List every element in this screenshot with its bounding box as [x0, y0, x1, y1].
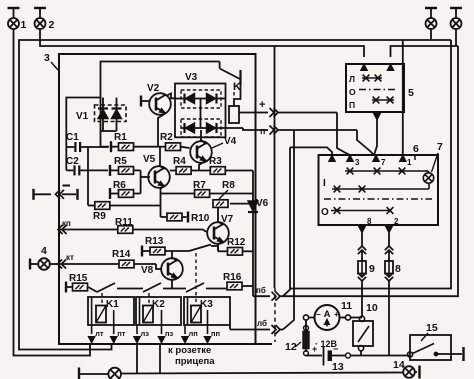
svg-text:1: 1 — [21, 19, 27, 31]
box6 terminal arrow 4 — [329, 155, 336, 162]
wire - connector line vertical — [274, 46, 276, 288]
terminal minus with capacitor lead — [63, 185, 71, 187]
mech link K2 dashed — [148, 293, 150, 306]
diode V3d — [207, 123, 217, 133]
svg-text:кп: кп — [62, 219, 71, 228]
wire - rail lamp2 to switch box 5 left input — [40, 29, 364, 57]
mech link K3 dashed — [195, 253, 197, 306]
svg-text:C2: C2 — [66, 156, 79, 167]
relay K2 box — [136, 297, 181, 325]
svg-text:пб: пб — [256, 286, 266, 295]
relay contact of K2 — [143, 283, 161, 292]
svg-text:R14: R14 — [112, 249, 131, 260]
wire - V7 emitter down — [218, 241, 224, 251]
terminal kt on box edge — [58, 260, 67, 269]
svg-text:V4: V4 — [224, 136, 237, 147]
wire - V3 center link — [200, 99, 202, 129]
svg-text:V8: V8 — [141, 265, 154, 276]
wire - right internal vertical — [252, 171, 254, 201]
box 6 switch block — [319, 155, 439, 225]
relay K3 coil — [191, 306, 201, 323]
diode bridge V3 outer box — [175, 84, 226, 138]
box6 bottom terminal 8 — [359, 227, 366, 234]
relay coil K — [229, 106, 239, 123]
relay contact K — [219, 62, 221, 69]
box 5 turn signal switch — [346, 64, 404, 112]
relay contact of K3 — [189, 245, 211, 252]
box6 terminal arrow 3 — [347, 155, 354, 162]
svg-text:K2: K2 — [152, 299, 165, 310]
box5 divider — [359, 89, 398, 91]
wire - common bottom line — [121, 373, 403, 374]
mechanical link dashes of K — [233, 92, 235, 104]
V3 lower dashed box — [181, 119, 221, 137]
wire - riser to box6 terminal 4 — [290, 147, 332, 155]
box5 left input arrow — [361, 64, 368, 71]
wire - node to R2 — [158, 146, 166, 148]
svg-text:V5: V5 — [143, 154, 156, 165]
wire - V8 emitter down — [172, 277, 178, 289]
svg-text:п: п — [260, 126, 265, 136]
diode V3b — [207, 94, 217, 104]
wire - V4 emitter down to R4/R3 node — [199, 160, 207, 171]
svg-text:1: 1 — [407, 158, 412, 167]
relay K1 pin wires — [91, 297, 93, 325]
svg-text:−: − — [316, 310, 321, 319]
fuse 8 — [385, 261, 393, 274]
box6 bottom terminal 2 — [386, 227, 393, 234]
svg-text:П: П — [349, 100, 355, 110]
wire - drop from bus to ground line right — [159, 344, 161, 373]
box3 bottom edge bus — [59, 343, 272, 345]
svg-text:9: 9 — [369, 263, 375, 275]
trailer socket pin пп — [207, 325, 209, 334]
svg-text:к розетке: к розетке — [168, 345, 211, 356]
relay K1 coil — [96, 306, 106, 323]
svg-text:7: 7 — [437, 141, 443, 153]
wire - ammeter to ignition switch 10 — [351, 317, 362, 319]
svg-text:пз: пз — [165, 329, 174, 338]
diode V3c — [185, 123, 195, 133]
svg-text:лз: лз — [141, 329, 150, 338]
wire - V5 collector up — [160, 147, 165, 169]
svg-text:пт: пт — [117, 329, 126, 338]
svg-text:2: 2 — [49, 19, 55, 31]
svg-text:R8: R8 — [222, 180, 235, 191]
wire - pb diagonal to vertical riser — [283, 147, 290, 296]
connector chevrons below fuse 9 — [358, 273, 366, 281]
svg-text:R10: R10 — [191, 213, 210, 224]
wire - V5 emitter down to R10 — [161, 185, 165, 217]
svg-text:6: 6 — [413, 143, 419, 155]
box5 output arrow down — [374, 114, 381, 121]
wire - V3 bottom row — [181, 127, 226, 129]
svg-text:5: 5 — [408, 87, 414, 99]
svg-text:R2: R2 — [160, 132, 173, 143]
svg-text:пп: пп — [211, 329, 220, 338]
diode V1b — [116, 98, 118, 109]
box5 contact row P — [372, 99, 394, 101]
connector group dashed line — [274, 288, 276, 342]
wire - lamp4 rail segment to box5 right input — [391, 46, 459, 57]
svg-text:8: 8 — [367, 217, 372, 226]
wire - R5/R6/base tie — [140, 170, 142, 193]
connector chevrons below fuse 8 — [385, 273, 393, 281]
wire - lamp1 down left side — [14, 29, 91, 356]
svg-text:V1: V1 — [76, 111, 89, 122]
svg-text:лб: лб — [257, 319, 267, 328]
svg-text:О: О — [349, 87, 356, 97]
wire - lamp4 stem — [455, 29, 457, 46]
connector chevrons above fuse 8 — [385, 246, 393, 254]
lamp 4 (rear right turn lamp) — [450, 8, 462, 29]
wire - V3 top row — [175, 98, 226, 100]
svg-text:O: O — [321, 207, 329, 218]
box5 right input arrow — [387, 64, 394, 71]
wire - V7 collector to R8 — [218, 207, 224, 225]
relay K2 pin wires — [139, 297, 141, 325]
wire - p line down to box6 terminal 7 — [357, 130, 374, 155]
svg-text:K1: K1 — [106, 299, 119, 310]
lamp 3 (rear left turn lamp) — [425, 8, 437, 29]
svg-text:+: + — [312, 344, 317, 354]
wire - rail from lamp3 across top to left side and down — [19, 40, 451, 350]
diode assembly V1 dashed box — [95, 105, 127, 122]
svg-text:V2: V2 — [147, 83, 160, 94]
wire - plus line down to box6 terminal 3 — [337, 113, 350, 156]
svg-text:R1: R1 — [114, 132, 127, 143]
wire - contact row — [117, 288, 143, 290]
lamp 2 (front right turn lamp) — [34, 8, 55, 31]
svg-text:Л: Л — [349, 74, 355, 84]
box6 row O — [331, 210, 390, 212]
svg-text:4: 4 — [41, 245, 47, 257]
box6 row I upper — [345, 170, 424, 172]
svg-text:I: I — [323, 178, 326, 189]
svg-text:13: 13 — [332, 361, 344, 373]
svg-text:15: 15 — [426, 322, 438, 334]
trailer socket pin лп — [184, 325, 186, 334]
lamp 1 (front left turn lamp) — [8, 8, 27, 31]
wire - V1 output rail down to R1 row — [101, 130, 117, 132]
wire - contact row 2 — [163, 288, 186, 290]
relay contact of K3 — [186, 283, 204, 292]
svg-text:R12: R12 — [227, 237, 246, 248]
box5 contact row L — [362, 77, 382, 79]
fuse 9 — [358, 261, 366, 274]
svg-text:R4: R4 — [173, 156, 186, 167]
V3 upper dashed box — [181, 90, 221, 108]
svg-text:V3: V3 — [185, 72, 198, 83]
wire - V4 collector up to p-line — [201, 130, 207, 144]
wire - C1 to R9 vertical — [87, 147, 89, 206]
wire - V2 emitter down to R1/R2 node — [158, 113, 166, 147]
wire - fuse9 down to ignition switch 10 — [361, 280, 363, 316]
wire - wrap wire B right side down to pb line — [283, 46, 458, 296]
box 3 flasher unit enclosure — [59, 54, 256, 344]
svg-text:7: 7 — [381, 158, 386, 167]
svg-text:10: 10 — [366, 302, 378, 314]
resistor R10 — [161, 216, 168, 218]
diode V1a — [102, 98, 104, 109]
wire - branch from rail1 down to switch box6 terminal 1 — [402, 40, 404, 155]
box6 terminal arrow 7 — [373, 155, 380, 162]
svg-text:лт: лт — [95, 329, 104, 338]
pilot lamp 7 in box6 — [423, 173, 433, 183]
internal supply rail of box 3 — [66, 62, 219, 171]
wire - drop from bus to ground line left — [136, 344, 138, 373]
mech link K1 dashed — [101, 293, 103, 306]
svg-text:K3: K3 — [200, 299, 213, 310]
svg-text:3: 3 — [355, 158, 360, 167]
relay K3 box — [184, 297, 230, 325]
diode V3a — [185, 94, 195, 104]
svg-text:V6: V6 — [256, 198, 269, 209]
svg-text:2: 2 — [394, 217, 399, 226]
wire - box6 pin8 down to fuse 9 — [361, 233, 363, 247]
box6 row I lower — [332, 188, 429, 190]
box6 divider — [324, 198, 432, 200]
relay contact of K1 — [97, 283, 115, 292]
svg-text:R13: R13 — [145, 236, 164, 247]
relay K2 coil — [143, 306, 153, 323]
wire - V2 collector to V3 — [166, 94, 175, 99]
svg-text:R9: R9 — [93, 211, 106, 222]
svg-text:прицепа: прицепа — [175, 356, 215, 367]
trailer socket pin лт — [91, 325, 93, 334]
svg-text:+: + — [259, 99, 265, 111]
wire - lb diagonal to vertical riser — [283, 130, 294, 330]
svg-text:лп: лп — [189, 329, 198, 338]
svg-text:+: + — [334, 310, 339, 319]
svg-text:R5: R5 — [114, 156, 127, 167]
wire - box6 pin2 down to fuse 8 — [388, 233, 390, 247]
wire - K contact to coil — [234, 85, 241, 106]
wire - lb feed inside — [229, 325, 231, 330]
wire - contact row 3 — [206, 288, 227, 290]
svg-text:3: 3 — [44, 52, 50, 64]
svg-text:11: 11 — [341, 300, 352, 312]
trailer socket pin пз — [161, 325, 163, 334]
trailer socket pin лз — [136, 325, 138, 334]
box6 terminal arrow 1 — [399, 155, 406, 162]
wire - battery minus to light switch 15 — [351, 355, 411, 357]
svg-text:−: − — [333, 344, 338, 354]
trailer socket pin пт — [113, 325, 115, 334]
svg-text:R3: R3 — [209, 156, 222, 167]
wire - wrap wire A right side from rail1 down to rear-right feed — [290, 40, 451, 289]
wire - box5 output to box6 terminal 7 — [374, 120, 377, 155]
relay K3 pin wires — [187, 297, 189, 325]
svg-text:C1: C1 — [66, 132, 79, 143]
wire - lamp3 stem — [430, 29, 432, 40]
wire - fuse8 down to battery line — [388, 280, 390, 356]
relay K1 box — [88, 297, 134, 325]
svg-text:8: 8 — [395, 263, 401, 275]
svg-text:кт: кт — [66, 253, 74, 262]
terminal kp on box edge — [58, 225, 67, 234]
connector chevrons above fuse 9 — [358, 246, 366, 254]
wire - V8 collector up — [172, 251, 178, 261]
wire - coil K output to plus terminal — [239, 112, 257, 114]
ground lamp bottom left — [78, 368, 80, 379]
